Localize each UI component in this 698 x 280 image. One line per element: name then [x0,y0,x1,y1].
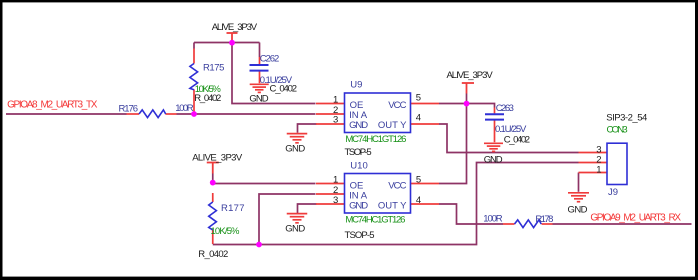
junction node power3 [210,180,216,186]
svg-text:ALIVE_3P3V: ALIVE_3P3V [192,152,243,163]
wire VCC node down to U10 VCC [439,104,467,184]
svg-text:ALIVE_3P3V: ALIVE_3P3V [212,22,258,33]
svg-text:GND: GND [285,143,305,154]
svg-text:4: 4 [416,195,421,206]
svg-text:GND: GND [349,201,368,212]
wire TX from GPIOA8 label to R176 [6,113,127,115]
svg-text:VCC: VCC [388,180,406,191]
ground symbol U9 [287,134,308,143]
svg-text:R177: R177 [221,203,245,214]
wire J9 pin1 to ground [578,173,580,192]
svg-text:U9: U9 [350,80,362,91]
power symbol ALIVE_3P3V top [227,33,238,41]
svg-text:GND: GND [285,224,305,235]
svg-text:R_0402: R_0402 [198,249,228,260]
resistor R175 leads [193,49,195,64]
svg-text:GND: GND [349,120,368,131]
svg-text:CON3: CON3 [607,124,628,135]
svg-text:TSOP-5: TSOP-5 [345,147,372,158]
svg-text:R178: R178 [535,214,553,225]
U10 pin stubs [316,183,345,185]
wire U10 pin3 to ground [298,204,317,213]
svg-text:4: 4 [416,112,421,123]
svg-text:MC74HC1GT126: MC74HC1GT126 [345,134,406,145]
capacitor C263 leads [494,108,496,114]
resistor R176 [119,103,194,118]
svg-text:3: 3 [333,195,338,206]
wire C262 top drop [259,43,261,58]
wire U9 pin3 to ground [298,124,317,133]
ground symbol C263 [484,143,503,151]
resistor R178 leads [503,223,515,225]
op-amp U9 buffer MC74HC1GT126 [333,80,421,159]
wire U10 IN A to riser [259,194,316,245]
wire power3 stem lower [212,174,214,184]
junction node TX/R175 [191,111,197,117]
wire U10 OUTY down to RX row [439,204,503,224]
svg-text:R176: R176 [119,104,139,115]
svg-text:ALIVE_3P3V: ALIVE_3P3V [447,70,494,81]
wire power rail top (R175 top to C262 top) [194,42,260,44]
svg-text:R_0402: R_0402 [194,93,221,104]
wire U9 OUTY to J9 pin3 [439,124,579,153]
svg-text:MC74HC1GT126: MC74HC1GT126 [345,215,405,226]
junction node VCC/C263 [464,101,470,107]
wire 3.3V down to U9 OE [232,43,316,104]
wire U9 VCC to node [439,103,467,105]
svg-text:U10: U10 [350,160,367,171]
resistor R178 [483,214,553,228]
svg-text:VCC: VCC [388,100,406,111]
svg-text:GND: GND [249,93,268,104]
ground symbol J9 [568,193,589,202]
junction node rail/IN A [256,242,262,248]
svg-text:C262: C262 [260,53,280,64]
svg-text:C_0402: C_0402 [504,134,530,145]
svg-text:5: 5 [416,92,421,103]
wire bottom rail R177 to J9 pin2 riser [213,163,579,245]
svg-text:100R: 100R [175,103,193,114]
connector J9 CON3 [596,112,647,198]
svg-text:OUT Y: OUT Y [378,201,407,212]
svg-text:3: 3 [333,115,338,126]
wire power2 stem [466,94,468,104]
svg-text:100R: 100R [483,214,502,225]
wire RX row R178 to right edge [553,223,692,225]
capacitor C262 leads [259,57,261,64]
resistor R175 [190,63,225,105]
ground symbol C262 [250,84,269,92]
svg-text:R175: R175 [203,63,224,74]
svg-text:5: 5 [416,174,421,185]
resistor R177 [198,202,244,260]
junction node power1 [229,40,235,46]
svg-text:GPIOA9_M2_UART3_RX: GPIOA9_M2_UART3_RX [590,213,681,224]
wire R175 top lead stub [193,43,195,49]
svg-text:TSOP-5: TSOP-5 [345,230,375,241]
wire U10 OE from power3 node [213,183,316,185]
svg-text:10K/5%: 10K/5% [211,226,241,237]
power symbol ALIVE_3P3V mid [462,83,474,94]
svg-text:GND: GND [568,205,588,216]
svg-text:C_0402: C_0402 [270,84,298,95]
resistor R177 leads [212,193,214,202]
wire node to C263 [467,104,495,108]
svg-text:1: 1 [333,94,338,105]
capacitor C262 [249,53,297,104]
svg-text:C263: C263 [496,103,514,114]
svg-text:1: 1 [333,175,338,186]
power symbol ALIVE_3P3V low [207,163,219,174]
wire R176 to U9 pin2 through node [177,113,316,115]
svg-text:SIP3-2_54: SIP3-2_54 [606,112,647,123]
svg-text:GPIOA8_M2_UART3_TX: GPIOA8_M2_UART3_TX [7,100,98,111]
svg-text:1: 1 [596,164,601,175]
op-amp U10 buffer MC74HC1GT126 [333,160,421,240]
svg-text:J9: J9 [608,187,618,198]
svg-text:GND: GND [484,154,503,165]
J9 pin stubs [579,152,608,154]
svg-text:OUT Y: OUT Y [378,120,407,131]
resistor R176 leads [127,113,140,115]
U9 pin stubs [316,103,345,105]
ground symbol U10 [287,214,308,223]
capacitor C263 [484,103,530,165]
